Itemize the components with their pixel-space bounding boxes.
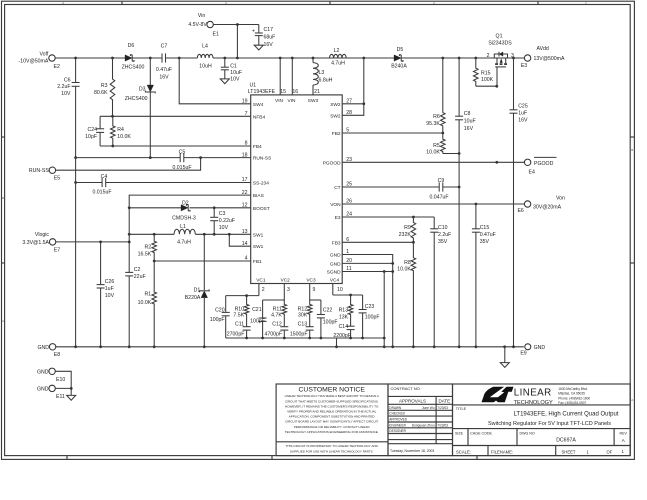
svg-text:APPROVED: APPROVED xyxy=(389,418,407,422)
wire FB1 pin 4 xyxy=(153,260,251,263)
svg-text:E2: E2 xyxy=(54,64,60,70)
svg-text:C25: C25 xyxy=(518,104,528,110)
svg-text:SHEET: SHEET xyxy=(562,450,576,455)
svg-text:16V: 16V xyxy=(518,118,528,124)
svg-text:GND: GND xyxy=(37,387,49,393)
svg-text:C23: C23 xyxy=(365,304,375,310)
svg-text:RUN-SS: RUN-SS xyxy=(253,156,271,162)
svg-text:1uF: 1uF xyxy=(518,111,527,117)
resistor R10 xyxy=(233,296,248,327)
svg-text:CIRCUIT BOARD LAYOUT MAY SIGNI: CIRCUIT BOARD LAYOUT MAY SIGNIFICANTLY A… xyxy=(285,420,378,424)
svg-text:68uF: 68uF xyxy=(264,35,276,41)
svg-text:B: B xyxy=(631,148,633,152)
svg-text:SGND: SGND xyxy=(327,270,341,276)
svg-text:3: 3 xyxy=(287,287,290,293)
inductor L1 xyxy=(174,224,195,246)
svg-text:CUSTOMER NOTICE: CUSTOMER NOTICE xyxy=(299,387,366,394)
svg-text:2700pF: 2700pF xyxy=(227,331,245,337)
capacitor C9 xyxy=(429,178,448,201)
svg-text:E10: E10 xyxy=(56,377,65,383)
wire compensation ground rail xyxy=(226,337,385,349)
wire Vin/Voff top rail xyxy=(55,57,524,60)
svg-text:VIN: VIN xyxy=(288,98,297,104)
capacitor C7 xyxy=(156,44,172,81)
capacitor C20 xyxy=(210,296,230,338)
svg-text:80.6K: 80.6K xyxy=(94,90,108,96)
diode D3 ZHCS400 xyxy=(125,58,155,158)
svg-text:15: 15 xyxy=(280,89,286,95)
wire VC2 pin 3 xyxy=(263,284,285,301)
resistor R8 xyxy=(397,242,415,348)
svg-text:A: A xyxy=(631,398,633,402)
svg-text:R5: R5 xyxy=(433,143,440,149)
svg-text:C14: C14 xyxy=(339,324,349,330)
svg-text:Milpitas, CA 95035: Milpitas, CA 95035 xyxy=(558,392,585,396)
terminal E11 GND xyxy=(37,385,65,400)
svg-text:C6: C6 xyxy=(64,78,71,84)
svg-text:HOWEVER, IT REMAINS THE CUSTOM: HOWEVER, IT REMAINS THE CUSTOMER'S RESPO… xyxy=(285,404,379,408)
svg-text:June Wu: June Wu xyxy=(422,406,435,410)
resistor R3 xyxy=(94,58,115,116)
svg-text:ENGINEER: ENGINEER xyxy=(389,423,406,427)
inductor L2 xyxy=(330,48,347,67)
svg-text:100pF: 100pF xyxy=(365,314,380,320)
svg-text:10V: 10V xyxy=(61,91,71,97)
capacitor C21 xyxy=(250,300,266,338)
wire VIN pin 16 xyxy=(291,58,293,95)
capacitor C24 xyxy=(85,116,104,146)
svg-text:1uF: 1uF xyxy=(105,286,114,292)
svg-text:95.3K: 95.3K xyxy=(426,121,440,127)
svg-text:VC2: VC2 xyxy=(281,278,291,284)
svg-text:SW1: SW1 xyxy=(253,232,264,238)
svg-text:BOOST: BOOST xyxy=(253,206,270,212)
wire FB3 pin 6 xyxy=(342,241,415,244)
svg-text:D6: D6 xyxy=(128,43,135,49)
svg-text:Vlogic: Vlogic xyxy=(35,232,50,238)
wire RUN-SS pin 18 xyxy=(74,156,251,159)
svg-text:L3: L3 xyxy=(319,70,325,76)
svg-text:Von: Von xyxy=(556,196,565,202)
capacitor C11 xyxy=(227,322,251,338)
capacitor C14 xyxy=(333,324,354,339)
svg-text:28: 28 xyxy=(346,110,352,116)
svg-text:C20: C20 xyxy=(215,307,225,313)
terminal E4 PGOOD xyxy=(524,157,556,175)
svg-text:R6: R6 xyxy=(433,114,440,120)
svg-text:C10: C10 xyxy=(438,225,448,231)
customer notice block xyxy=(276,384,388,456)
svg-text:CT: CT xyxy=(334,185,340,191)
svg-text:16.5K: 16.5K xyxy=(138,252,152,258)
svg-text:35V: 35V xyxy=(480,239,490,245)
svg-text:SUPPLIED FOR USE WITH LINEAR T: SUPPLIED FOR USE WITH LINEAR TECHNOLOGY … xyxy=(290,449,374,453)
svg-text:C17: C17 xyxy=(264,27,274,33)
svg-text:CONTRACT NO.: CONTRACT NO. xyxy=(391,386,421,391)
svg-text:10: 10 xyxy=(337,287,343,293)
capacitor C22 xyxy=(317,300,338,338)
wire GND pins 1 20 11 xyxy=(342,255,394,349)
svg-text:Vin: Vin xyxy=(198,13,206,19)
svg-text:DATE: DATE xyxy=(438,399,450,404)
svg-text:0.22uF: 0.22uF xyxy=(219,218,235,224)
svg-text:C1: C1 xyxy=(230,64,237,70)
svg-text:16V: 16V xyxy=(464,126,474,132)
svg-text:0.047uF: 0.047uF xyxy=(429,195,448,201)
svg-text:C7: C7 xyxy=(161,44,168,50)
svg-text:LINEAR TECHNOLOGY HAS MADE A B: LINEAR TECHNOLOGY HAS MADE A BEST EFFORT… xyxy=(285,394,380,398)
svg-text:C8: C8 xyxy=(464,111,471,117)
wire E10 E11 ground xyxy=(55,371,72,395)
svg-text:100pF: 100pF xyxy=(210,317,225,323)
capacitor C13 xyxy=(290,322,314,338)
wire VC1 pin 2 xyxy=(226,284,259,298)
svg-text:L2: L2 xyxy=(334,48,340,54)
svg-text:Dongyuan Zhou: Dongyuan Zhou xyxy=(412,423,435,427)
svg-text:35V: 35V xyxy=(438,239,448,245)
svg-text:REV: REV xyxy=(620,432,628,436)
svg-text:100pF: 100pF xyxy=(250,319,265,325)
svg-text:R13: R13 xyxy=(339,307,349,313)
svg-text:VC4: VC4 xyxy=(330,278,340,284)
capacitor C2 xyxy=(125,267,145,280)
svg-text:GND: GND xyxy=(37,345,49,351)
capacitor C17 xyxy=(252,25,275,49)
svg-text:R2: R2 xyxy=(145,245,152,251)
svg-text:DESIGNER: DESIGNER xyxy=(389,429,406,433)
capacitor C12 xyxy=(264,322,288,338)
svg-text:E6: E6 xyxy=(517,208,523,214)
resistor R9 xyxy=(399,217,416,242)
wire FB4 pin 8 xyxy=(100,145,251,148)
svg-text:THIS CIRCUIT IS PROPRIETARY TO: THIS CIRCUIT IS PROPRIETARY TO LINEAR TE… xyxy=(286,444,379,448)
svg-text:C2: C2 xyxy=(134,267,141,273)
svg-text:R3: R3 xyxy=(101,83,108,89)
svg-text:DC697A: DC697A xyxy=(556,438,576,444)
svg-text:16V: 16V xyxy=(264,42,274,48)
svg-text:10V: 10V xyxy=(230,76,240,82)
svg-text:VC3: VC3 xyxy=(306,278,316,284)
svg-text:30K: 30K xyxy=(298,313,308,319)
svg-text:1630 McCarthy Blvd.: 1630 McCarthy Blvd. xyxy=(558,387,588,391)
svg-text:LT1943EFE, High Current Quad O: LT1943EFE, High Current Quad Output xyxy=(514,411,619,417)
svg-text:R15: R15 xyxy=(481,70,491,76)
svg-text:0.47uF: 0.47uF xyxy=(480,232,496,238)
svg-text:AVdd: AVdd xyxy=(537,46,549,52)
svg-text:SW4: SW4 xyxy=(253,102,264,108)
svg-text:C22: C22 xyxy=(323,307,333,313)
svg-text:5: 5 xyxy=(346,128,349,134)
svg-text:10V: 10V xyxy=(219,225,229,231)
svg-text:10.0K: 10.0K xyxy=(426,150,440,156)
svg-text:VON: VON xyxy=(330,202,341,208)
wire E7 Vlogic xyxy=(56,241,129,244)
wire SW2 pins 27 28 xyxy=(342,58,365,115)
svg-text:-10V@50mA: -10V@50mA xyxy=(19,59,49,65)
svg-text:PERFORMANCE OR RELIABILITY. C: PERFORMANCE OR RELIABILITY. CONTACT LINE… xyxy=(294,425,370,429)
svg-text:4700pF: 4700pF xyxy=(264,331,282,337)
svg-text:OF: OF xyxy=(607,450,613,455)
svg-text:7/23/03: 7/23/03 xyxy=(437,406,448,410)
svg-text:RUN-SS: RUN-SS xyxy=(29,168,49,174)
svg-text:PGOOD: PGOOD xyxy=(323,160,341,166)
svg-text:FB2: FB2 xyxy=(332,131,341,137)
svg-text:9: 9 xyxy=(313,287,316,293)
wire Vlogic riser xyxy=(128,208,131,348)
svg-text:2: 2 xyxy=(487,53,490,59)
svg-text:10.0K: 10.0K xyxy=(117,134,131,140)
svg-text:ZHCS400: ZHCS400 xyxy=(122,64,145,70)
svg-text:SW3: SW3 xyxy=(308,98,319,104)
svg-text:7.5K: 7.5K xyxy=(233,313,244,319)
svg-text:21: 21 xyxy=(314,89,320,95)
terminal E7 Vlogic xyxy=(22,232,60,254)
svg-text:Si2343DS: Si2343DS xyxy=(488,40,512,46)
svg-text:CIRCUIT THAT MEETS CUSTOMER-SU: CIRCUIT THAT MEETS CUSTOMER-SUPPLIED SPE… xyxy=(285,399,378,403)
capacitor C5 xyxy=(172,150,191,172)
svg-text:0.47uF: 0.47uF xyxy=(156,67,172,73)
svg-text:CAGE CODE: CAGE CODE xyxy=(470,432,492,436)
title block title section xyxy=(453,407,631,429)
svg-text:VC1: VC1 xyxy=(256,278,266,284)
svg-text:E7: E7 xyxy=(54,248,60,254)
svg-text:13K: 13K xyxy=(339,314,349,320)
svg-text:C9: C9 xyxy=(438,178,445,184)
svg-text:4.7uH: 4.7uH xyxy=(177,240,191,246)
wire BIAS pin 22 xyxy=(129,195,251,208)
svg-text:C12: C12 xyxy=(272,322,282,328)
svg-text:L1: L1 xyxy=(180,224,186,230)
svg-text:E8: E8 xyxy=(54,352,60,358)
svg-text:C24: C24 xyxy=(87,127,97,133)
terminal E9 GND xyxy=(520,344,545,357)
svg-text:19: 19 xyxy=(242,99,248,105)
wire NFB4 pin 7 xyxy=(100,115,251,118)
terminal E2 Voff xyxy=(19,52,60,70)
svg-text:Voff: Voff xyxy=(39,52,48,58)
svg-text:1500pF: 1500pF xyxy=(290,331,308,337)
svg-text:6.8uH: 6.8uH xyxy=(319,78,333,84)
svg-text:BIAS: BIAS xyxy=(253,193,264,199)
wire SW1 pins 13 14 xyxy=(128,233,251,246)
svg-text:SIZE: SIZE xyxy=(455,432,464,436)
wire SS-234 pin 17 xyxy=(74,181,251,184)
svg-text:10V: 10V xyxy=(105,293,115,299)
svg-text:4.5V-8V: 4.5V-8V xyxy=(188,22,207,28)
wire FB2 pin 5 xyxy=(342,132,444,135)
svg-text:E5: E5 xyxy=(54,176,60,182)
svg-text:LINEAR: LINEAR xyxy=(514,387,552,398)
svg-text:FB1: FB1 xyxy=(253,259,262,265)
terminal E8 GND xyxy=(37,344,60,359)
wire Vin input xyxy=(213,23,258,58)
svg-text:APPLICATION. COMPONENT SUBSTIT: APPLICATION. COMPONENT SUBSTITUTION AND … xyxy=(289,415,376,419)
terminal E1 Vin xyxy=(188,13,219,38)
capacitor C4 xyxy=(92,174,111,196)
diode D6 ZHCS400 xyxy=(122,43,145,70)
svg-text:DWG NO: DWG NO xyxy=(520,432,535,436)
svg-text:L4: L4 xyxy=(202,44,208,50)
svg-text:R9: R9 xyxy=(404,225,411,231)
svg-text:4.7uH: 4.7uH xyxy=(331,61,345,67)
resistor R15 xyxy=(474,58,499,88)
svg-text:ZHCS400: ZHCS400 xyxy=(125,96,148,102)
svg-text:GND: GND xyxy=(330,261,341,267)
title block contract column xyxy=(388,384,453,456)
svg-text:B: B xyxy=(2,196,4,200)
capacitor C8 xyxy=(455,58,476,347)
ground at E11 xyxy=(67,395,76,400)
resistor R5 xyxy=(426,133,460,156)
terminal E6 Von xyxy=(517,196,565,215)
svg-text:B240A: B240A xyxy=(391,64,407,70)
svg-text:C13: C13 xyxy=(298,322,308,328)
wire E5 to RUN-SS xyxy=(56,158,201,171)
wire main ground rail xyxy=(56,345,524,348)
svg-text:D1: D1 xyxy=(194,287,201,293)
svg-text:C4: C4 xyxy=(101,174,108,180)
svg-text:D5: D5 xyxy=(397,47,404,53)
svg-text:FB4: FB4 xyxy=(253,144,262,150)
wire C8 C25 bottoms xyxy=(0,0,1,1)
capacitor C10 xyxy=(430,217,451,348)
svg-text:10uF: 10uF xyxy=(464,119,476,125)
ground at C1 xyxy=(220,79,229,84)
svg-text:10.0K: 10.0K xyxy=(397,266,411,272)
svg-text:10pF: 10pF xyxy=(85,134,97,140)
svg-text:SCALE:: SCALE: xyxy=(456,449,471,454)
wire VC4 pin 10 xyxy=(333,284,363,297)
terminal E10 GND xyxy=(37,368,65,383)
svg-text:E4: E4 xyxy=(529,170,535,176)
resistor R11 xyxy=(271,300,286,327)
capacitor C3 xyxy=(210,208,235,235)
svg-text:Tuesday, November 18, 2003: Tuesday, November 18, 2003 xyxy=(390,449,434,453)
svg-text:TECHNOLOGY: TECHNOLOGY xyxy=(514,400,553,406)
svg-text:22uF: 22uF xyxy=(134,274,146,280)
svg-text:4.7K: 4.7K xyxy=(271,313,282,319)
svg-text:R11: R11 xyxy=(273,306,282,312)
svg-text:D3: D3 xyxy=(139,87,146,93)
svg-text:GND: GND xyxy=(37,370,49,376)
ground symbol at rail xyxy=(500,347,509,368)
svg-text:VIN: VIN xyxy=(275,98,284,104)
capacitor C23 xyxy=(359,295,380,338)
svg-text:E1: E1 xyxy=(213,32,219,38)
transistor Q1 Si2343DS xyxy=(487,34,514,87)
title block logo section xyxy=(453,384,631,456)
svg-text:E3: E3 xyxy=(335,215,341,221)
diode D5 B240A xyxy=(391,47,407,70)
svg-text:16: 16 xyxy=(292,89,298,95)
svg-text:232K: 232K xyxy=(399,232,412,238)
wire VIN pin 15 xyxy=(279,58,281,95)
svg-text:GND: GND xyxy=(330,253,341,259)
svg-text:Switching Regulator For 5V Inp: Switching Regulator For 5V Input TFT-LCD… xyxy=(488,421,611,427)
svg-text:R12: R12 xyxy=(298,306,308,312)
resistor R1 xyxy=(138,261,157,348)
svg-text:FB3: FB3 xyxy=(332,240,341,246)
wire pin 24 output xyxy=(342,216,434,219)
svg-text:GND: GND xyxy=(534,345,546,351)
svg-text:SW1: SW1 xyxy=(253,244,264,250)
svg-text:E9: E9 xyxy=(520,351,526,357)
svg-text:E3: E3 xyxy=(521,63,527,69)
svg-text:2: 2 xyxy=(262,287,265,293)
diode D2 CMDSH-3 xyxy=(128,201,251,222)
svg-text:10uF: 10uF xyxy=(230,70,242,76)
svg-text:SS-234: SS-234 xyxy=(253,181,269,187)
wire CT pin 25 xyxy=(342,186,460,189)
capacitor C25 xyxy=(510,58,528,347)
svg-text:NFB4: NFB4 xyxy=(253,114,266,120)
wire ground net left xyxy=(74,158,77,349)
resistor R2 xyxy=(138,234,157,261)
svg-text:R4: R4 xyxy=(117,127,124,133)
resistor R13 xyxy=(339,295,353,326)
svg-text:10.0K: 10.0K xyxy=(138,300,152,306)
capacitor C1 xyxy=(221,58,242,82)
svg-text:R10: R10 xyxy=(235,306,245,312)
svg-text:Phone: (408)432-1900: Phone: (408)432-1900 xyxy=(558,396,590,400)
svg-text:10uH: 10uH xyxy=(199,64,212,70)
svg-text:D2: D2 xyxy=(182,201,189,207)
svg-text:SW2: SW2 xyxy=(330,113,341,119)
svg-text:CHECKED: CHECKED xyxy=(389,412,405,416)
capacitor C26 xyxy=(97,242,115,348)
svg-text:R1: R1 xyxy=(145,292,152,298)
svg-text:TITLE: TITLE xyxy=(456,407,467,411)
svg-text:C11: C11 xyxy=(235,322,244,328)
title block size row xyxy=(453,429,631,446)
terminal E3 AVdd xyxy=(521,46,565,69)
svg-text:PGOOD: PGOOD xyxy=(534,161,554,167)
svg-text:100K: 100K xyxy=(481,77,494,83)
svg-text:A: A xyxy=(2,319,4,323)
svg-text:C26: C26 xyxy=(105,279,115,285)
svg-text:3.3V@1.5A: 3.3V@1.5A xyxy=(22,240,49,246)
svg-text:13V@500mA: 13V@500mA xyxy=(534,56,565,62)
svg-text:B220A: B220A xyxy=(185,295,201,301)
svg-text:E11: E11 xyxy=(56,394,65,400)
svg-text:Q1: Q1 xyxy=(496,34,503,40)
svg-text:TECHNOLOGY APPLICATIONS ENGINE: TECHNOLOGY APPLICATIONS ENGINEERING FOR … xyxy=(285,430,379,434)
svg-text:SW2: SW2 xyxy=(330,102,341,108)
wire VC3 pin 9 xyxy=(310,284,321,301)
svg-text:LT1943EFE: LT1943EFE xyxy=(248,89,276,95)
svg-text:30V@20mA: 30V@20mA xyxy=(533,205,562,211)
svg-text:C3: C3 xyxy=(219,211,226,217)
resistor R6 xyxy=(426,58,445,133)
wire PGOOD pin 23 xyxy=(342,161,524,164)
svg-text:2.2uF: 2.2uF xyxy=(57,84,70,90)
svg-text:27: 27 xyxy=(346,99,352,105)
capacitor C6 xyxy=(57,58,79,158)
svg-text:C15: C15 xyxy=(480,225,490,231)
svg-text:C5: C5 xyxy=(179,150,186,156)
svg-text:16V: 16V xyxy=(159,75,169,81)
svg-text:100pF: 100pF xyxy=(323,320,338,326)
svg-text:U1: U1 xyxy=(250,82,257,88)
inductor L4 xyxy=(197,44,213,70)
wire SW4 pin 19 xyxy=(179,58,251,104)
svg-text:FILENAME:: FILENAME: xyxy=(491,449,513,454)
capacitor C15 xyxy=(472,204,496,348)
svg-text:DRAWN: DRAWN xyxy=(389,406,402,410)
diode D1 B220A xyxy=(185,234,209,348)
svg-text:+: + xyxy=(252,29,255,35)
svg-text:CMDSH-3: CMDSH-3 xyxy=(172,216,196,222)
